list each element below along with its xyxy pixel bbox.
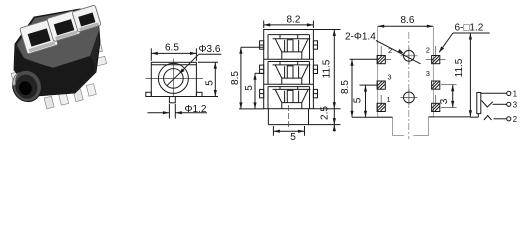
svg-text:2-Φ1.4: 2-Φ1.4 [345, 32, 376, 43]
svg-text:Φ3.6: Φ3.6 [199, 44, 221, 55]
svg-text:3: 3 [439, 98, 450, 104]
svg-text:3: 3 [426, 69, 430, 78]
svg-text:6.5: 6.5 [165, 43, 179, 54]
svg-text:5: 5 [290, 132, 296, 143]
svg-text:2: 2 [513, 115, 518, 124]
svg-text:1: 1 [513, 89, 518, 98]
svg-text:1: 1 [387, 95, 391, 104]
svg-text:5: 5 [244, 85, 255, 91]
svg-text:8.2: 8.2 [287, 15, 301, 26]
svg-text:11.5: 11.5 [454, 58, 465, 77]
svg-text:2.5: 2.5 [320, 106, 331, 120]
svg-text:3: 3 [513, 100, 518, 109]
svg-text:8.5: 8.5 [340, 80, 351, 94]
svg-text:5: 5 [352, 97, 363, 103]
svg-text:11.5: 11.5 [322, 59, 333, 78]
svg-text:3: 3 [387, 73, 391, 82]
svg-text:6-□1.2: 6-□1.2 [455, 23, 484, 34]
svg-text:2: 2 [426, 46, 430, 55]
svg-text:Φ1.2: Φ1.2 [185, 104, 207, 115]
svg-text:8.6: 8.6 [401, 15, 415, 26]
svg-text:8.5: 8.5 [230, 71, 241, 85]
svg-text:5: 5 [205, 80, 216, 86]
